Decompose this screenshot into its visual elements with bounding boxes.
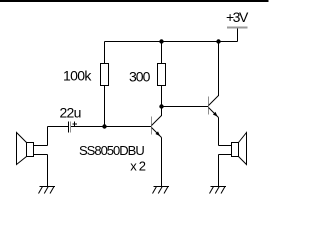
speaker SP1 top terminal wire bbox=[34, 145, 48, 147]
wire base Q2 bbox=[162, 106, 209, 108]
transistor Q2 collector lead wire bbox=[218, 42, 220, 97]
transistor Q1 collector diagonal bbox=[152, 116, 162, 126]
ground G3 (right) bbox=[210, 187, 227, 194]
transistor Q2 base bar (gray) bbox=[208, 97, 210, 115]
speaker SP2 bottom terminal wire bbox=[219, 154, 232, 156]
junction dot R2/Q1 collector/Q2 base bbox=[159, 104, 163, 108]
transistor Q1 collector lead wire bbox=[161, 107, 163, 117]
transistor Q2 emitter lead wire bbox=[218, 118, 220, 146]
resistor R2 top lead wire bbox=[161, 42, 163, 64]
speaker SP1 cone bbox=[17, 133, 27, 165]
capacitor C1 right plate (gray) bbox=[70, 122, 72, 133]
resistor R1 bottom lead wire bbox=[104, 86, 106, 127]
speaker SP1 ground drop wire bbox=[47, 155, 49, 187]
svg-text:2: 2 bbox=[139, 158, 146, 173]
svg-text:x: x bbox=[130, 158, 137, 173]
ground G2 (middle) bbox=[153, 187, 170, 194]
junction dot rail/Q2 collector bbox=[216, 39, 220, 43]
speaker SP2 cone bbox=[239, 133, 247, 165]
speaker SP2 ground drop wire bbox=[218, 155, 220, 187]
svg-text:SS8050DBU: SS8050DBU bbox=[79, 143, 144, 158]
transistor Q2 emitter arrow bbox=[213, 112, 218, 117]
resistor R1 top lead wire bbox=[104, 42, 106, 64]
speaker SP1 riser wire bbox=[47, 127, 49, 146]
resistor R2 bottom lead wire bbox=[161, 86, 163, 107]
speaker SP1 box bbox=[27, 143, 34, 157]
capacitor C1 left plate bbox=[68, 122, 70, 133]
speaker SP2 top terminal wire bbox=[219, 145, 232, 147]
resistor R1 100k body bbox=[101, 64, 109, 86]
wire signal path capacitor to Q1 base bbox=[71, 126, 152, 128]
transistor Q1 base bar (gray) bbox=[151, 117, 153, 135]
transistor Q2 emitter diagonal bbox=[209, 108, 219, 118]
wire +3V rail bbox=[105, 41, 238, 43]
svg-text:+3V: +3V bbox=[226, 9, 249, 25]
wire +3V stem bbox=[237, 29, 239, 42]
power symbol +3V bar (gray) bbox=[227, 27, 248, 29]
transistor Q1 emitter arrow bbox=[155, 131, 160, 136]
top border bar bbox=[0, 0, 269, 2]
speaker SP2 box bbox=[232, 143, 239, 157]
transistor Q1 emitter lead wire to ground bbox=[161, 138, 163, 187]
svg-text:22u: 22u bbox=[60, 105, 81, 121]
transistor Q2 collector diagonal bbox=[209, 96, 219, 106]
resistor R2 300 body bbox=[158, 64, 166, 86]
capacitor C1 plus polarity mark bbox=[73, 123, 78, 125]
junction dot C1/R1/Q1 base bbox=[102, 124, 106, 128]
svg-text:100k: 100k bbox=[63, 68, 92, 84]
transistor Q1 emitter diagonal bbox=[152, 128, 162, 138]
junction dot rail/R2 bbox=[159, 39, 163, 43]
ground G1 (left) bbox=[39, 187, 56, 194]
speaker SP1 bottom terminal wire bbox=[34, 154, 48, 156]
wire speaker SP1 to capacitor bbox=[48, 126, 69, 128]
svg-text:300: 300 bbox=[129, 69, 151, 85]
